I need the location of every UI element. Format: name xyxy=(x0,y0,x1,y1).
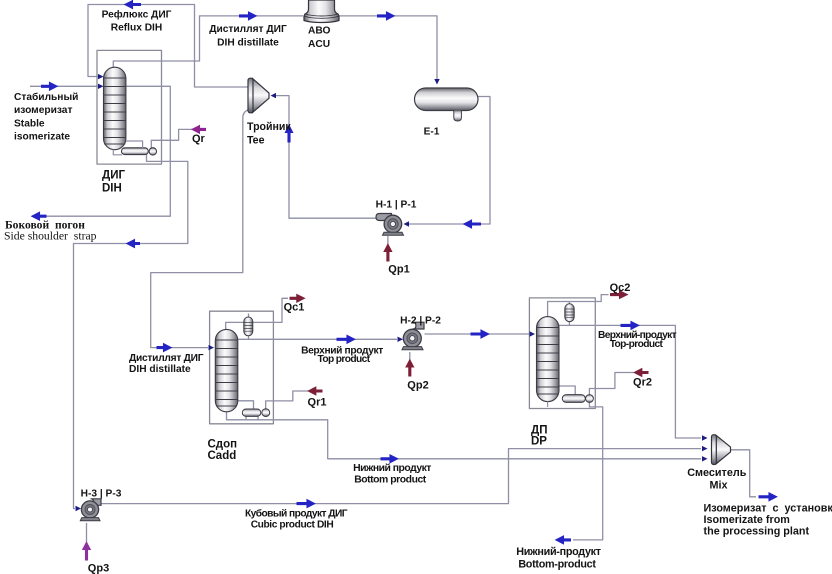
svg-text:Qc2: Qc2 xyxy=(610,282,631,294)
svg-text:H-3 | P-3: H-3 | P-3 xyxy=(81,489,122,500)
flow arrow up to tee xyxy=(287,128,291,143)
svg-text:isomerizate: isomerizate xyxy=(14,132,70,143)
svg-text:Сдоп: Сдоп xyxy=(208,439,238,451)
arrowhead into pump H-1 xyxy=(404,221,410,226)
svg-text:АВО: АВО xyxy=(308,26,330,37)
arrowhead into column reflux xyxy=(98,74,104,79)
svg-text:Смеситель: Смеситель xyxy=(687,467,746,479)
wire E-1 to pump H-1 xyxy=(409,97,490,225)
wire ABO to E-1 xyxy=(340,16,438,79)
arrowhead into pump H-3 xyxy=(76,506,82,511)
wire Qp2 stub xyxy=(409,352,411,364)
duty arrow Qr1 xyxy=(311,389,323,393)
mixer xyxy=(712,435,731,465)
flow arrow cubic product xyxy=(297,501,313,506)
flow arrow distillate post-ABO xyxy=(377,14,392,19)
column Cadd xyxy=(215,329,238,411)
duty arrow Qc2 xyxy=(610,292,625,296)
arrowhead into pump H-2 xyxy=(398,337,404,342)
wire DP overhead riser to Qc2 xyxy=(548,295,609,317)
svg-text:E-1: E-1 xyxy=(424,127,440,138)
svg-text:Нижний продукт: Нижний продукт xyxy=(353,463,431,474)
flow arrow distillate pre-ABO xyxy=(239,14,254,19)
duty arrow Qr2 xyxy=(637,370,649,374)
arrowhead mixer top inlet xyxy=(702,435,708,440)
svg-text:ДИГ: ДИГ xyxy=(102,170,125,182)
column DP xyxy=(537,317,560,402)
wire Cadd top product to pump H-2 xyxy=(238,338,397,340)
wire Cadd condenser stub xyxy=(248,314,250,340)
flow arrow isomerizate out xyxy=(759,495,775,500)
duty arrow Qp3 xyxy=(84,545,88,561)
svg-text:Qc1: Qc1 xyxy=(284,302,305,314)
arrowhead into Cadd column xyxy=(209,345,215,350)
duty arrow Qc1 xyxy=(290,296,303,300)
svg-text:Qr: Qr xyxy=(192,133,206,145)
flow arrow DP top product xyxy=(621,323,637,328)
wire DP bottoms product xyxy=(573,402,603,540)
wire DIH draw to reboiler xyxy=(126,141,143,148)
svg-text:H-1 | P-1: H-1 | P-1 xyxy=(376,200,417,211)
box DP unit xyxy=(529,298,595,409)
arrowhead mixer middle inlet xyxy=(702,446,708,451)
svg-text:Stable: Stable xyxy=(14,119,45,130)
flow arrow Cadd bottoms xyxy=(381,457,396,462)
wire Cadd reboiler stubs xyxy=(246,416,258,420)
svg-text:Isomerizate from: Isomerizate from xyxy=(704,514,790,526)
flow arrow Cadd top product xyxy=(337,337,353,342)
flow arrow E-1 to pump xyxy=(466,222,481,227)
drum E-1 xyxy=(415,88,479,121)
flow arrow DP bottoms left xyxy=(558,538,571,543)
svg-text:Bottom product: Bottom product xyxy=(354,475,427,486)
wire DP top product to mixer xyxy=(559,325,701,438)
svg-text:the processing plant: the processing plant xyxy=(704,526,810,538)
wire cubic product DIH pump H-3 to mixer xyxy=(100,449,702,504)
pump H-3 xyxy=(80,499,101,521)
svg-text:Tee: Tee xyxy=(247,135,265,147)
svg-text:Изомеризат с установки: Изомеризат с установки xyxy=(704,503,832,515)
arrowhead into tee apex xyxy=(271,93,277,98)
svg-text:изомеризат: изомеризат xyxy=(14,105,72,116)
pump H-2 xyxy=(402,322,424,350)
flow arrow Cadd feed xyxy=(157,345,170,350)
svg-text:Top-product: Top-product xyxy=(610,339,664,350)
svg-text:Qr2: Qr2 xyxy=(633,377,652,389)
svg-text:Тройник: Тройник xyxy=(247,121,291,133)
column DIH xyxy=(104,67,126,150)
svg-text:Side shoulder strap: Side shoulder strap xyxy=(4,230,97,243)
wire Qp1 stub xyxy=(387,236,389,250)
flow arrow DIH bottoms left xyxy=(129,241,140,246)
wire DP draw to reboiler xyxy=(559,386,575,395)
svg-text:DIH: DIH xyxy=(102,183,122,195)
svg-text:Cubic product DIH: Cubic product DIH xyxy=(251,520,334,531)
svg-text:Mix: Mix xyxy=(710,480,728,492)
flow arrow stable feed right xyxy=(41,84,55,89)
wire reflux: tee to DIH column top xyxy=(88,5,249,88)
svg-text:Bottom-product: Bottom-product xyxy=(518,559,596,571)
reboiler Cadd xyxy=(242,409,269,417)
svg-text:Дистиллят ДИГ: Дистиллят ДИГ xyxy=(129,353,204,364)
flow arrow side draw left xyxy=(34,214,47,219)
svg-text:DIH distillate: DIH distillate xyxy=(129,364,191,375)
box Cadd unit xyxy=(210,311,274,424)
reboiler DP xyxy=(562,395,593,403)
wire pump H-2 to DP column xyxy=(425,333,530,335)
condenser Cadd xyxy=(244,317,253,336)
wire DIH bottoms to pump H-3 xyxy=(74,154,188,509)
wire Cadd draw to reboiler xyxy=(238,401,254,410)
arrowhead into E-1 xyxy=(434,79,439,85)
reboiler DIH xyxy=(122,148,157,155)
svg-text:ACU: ACU xyxy=(308,39,330,50)
wire Qr duty line xyxy=(151,129,192,147)
svg-text:Qp2: Qp2 xyxy=(407,380,428,392)
svg-text:DP: DP xyxy=(531,436,547,448)
svg-text:Reflux DIH: Reflux DIH xyxy=(111,23,163,34)
duty arrow Qp1 xyxy=(386,247,390,262)
svg-text:Дистиллят ДИГ: Дистиллят ДИГ xyxy=(209,24,287,35)
arrowhead into DP column xyxy=(530,331,536,336)
flow arrow H-2 to DP xyxy=(471,332,487,337)
arrowhead into column feed xyxy=(98,84,104,89)
flow arrow reflux left xyxy=(127,2,141,7)
svg-text:Стабильный: Стабильный xyxy=(14,91,78,103)
svg-text:DIH distillate: DIH distillate xyxy=(217,38,279,49)
wire Cadd overhead riser to Qc1 xyxy=(226,298,288,329)
wire Qr2 duty line xyxy=(589,373,634,395)
wire Cadd bottoms to mixer xyxy=(227,412,702,459)
svg-text:Qp1: Qp1 xyxy=(388,264,409,276)
pump H-1 xyxy=(376,214,404,236)
box DIH unit xyxy=(97,50,162,164)
wire stable isomerizate feed xyxy=(30,85,99,87)
tee splitter xyxy=(248,78,269,113)
svg-text:Top product: Top product xyxy=(317,354,370,365)
svg-text:Qp3: Qp3 xyxy=(88,563,109,574)
air cooler ABO xyxy=(304,0,339,23)
svg-text:Кубовый продукт ДИГ: Кубовый продукт ДИГ xyxy=(245,508,348,520)
wire pump H-1 to tee apex xyxy=(276,96,379,219)
wire mixer outlet isomerizate xyxy=(731,450,756,497)
svg-text:Нижний-продукт: Нижний-продукт xyxy=(516,546,601,558)
wire Qr1 duty line xyxy=(266,391,308,409)
duty arrow Qr purple xyxy=(194,127,206,131)
svg-text:Cadd: Cadd xyxy=(208,450,237,462)
wire side draw stream xyxy=(33,86,170,216)
condenser DP xyxy=(565,304,574,322)
wire DP condenser stubs xyxy=(568,302,570,326)
wire DIH column bottom to reboiler xyxy=(113,150,122,155)
wire Qp3 stub xyxy=(86,523,88,543)
svg-text:H-2 | P-2: H-2 | P-2 xyxy=(400,316,441,327)
DP column bottom stub xyxy=(547,402,549,407)
svg-text:Qr1: Qr1 xyxy=(308,397,327,409)
wire DIH overhead to ABO xyxy=(113,16,303,67)
duty arrow Qp2 xyxy=(408,362,412,377)
svg-text:Рефлюкс ДИГ: Рефлюкс ДИГ xyxy=(102,9,172,21)
wire tee to Cadd feed xyxy=(151,110,249,348)
arrowhead mixer bottom inlet xyxy=(702,456,708,461)
